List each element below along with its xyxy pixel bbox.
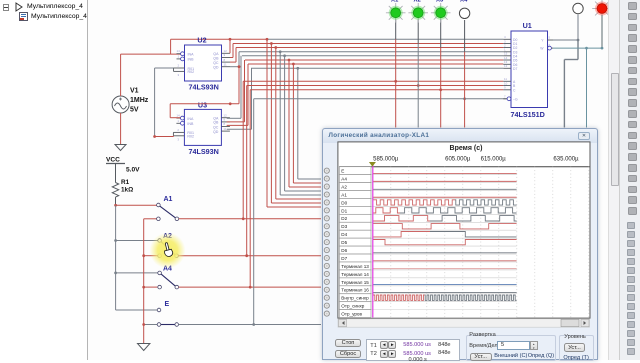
wire U2 QD to row D3 — [230, 50, 503, 66]
svg-text:Терминал 15: Терминал 15 — [341, 280, 369, 285]
wire red ground rail — [142, 219, 158, 343]
waveform terminal 15 — [373, 284, 517, 286]
wire U3 QD to row D7 — [227, 67, 504, 129]
VCC power symbol — [106, 157, 140, 183]
svg-text:D7: D7 — [341, 256, 347, 261]
svg-text:D0: D0 — [341, 200, 347, 205]
wire U2 reset net — [155, 68, 174, 137]
waveform A2 — [373, 188, 517, 190]
LED X1 (green, lit) — [386, 0, 406, 23]
waveform h-scrollbar — [338, 319, 590, 327]
wire A2 to U1 pin B — [247, 84, 504, 256]
svg-text:Терминал 14: Терминал 14 — [341, 272, 369, 277]
svg-text:D1: D1 — [341, 208, 347, 213]
svg-text:Время (с): Время (с) — [450, 145, 483, 152]
waveform E — [373, 172, 517, 174]
wire U1 Y to probe X6 — [553, 15, 579, 42]
wire U2 QD to U3 INA — [170, 65, 240, 117]
wire bundle drop 3 to analyzer — [276, 48, 321, 200]
svg-text:635.000µ: 635.000µ — [553, 157, 579, 163]
waveform D6 — [373, 252, 517, 254]
wire E output — [179, 323, 322, 326]
wire bundle drop 7 to analyzer — [293, 64, 321, 183]
svg-text:Отр_синхр: Отр_синхр — [341, 304, 364, 309]
wire U1 W to LED X5 — [553, 15, 603, 49]
LED X3 (green, lit) — [431, 0, 451, 23]
wire V1 top to clock net — [121, 39, 181, 96]
waveform D3 — [373, 224, 430, 229]
wire bundle drop 1 to analyzer — [267, 39, 321, 207]
wire A4 to U1 pin C — [250, 88, 503, 287]
counter U2 74LS93N — [174, 36, 231, 92]
grid dotted verticals — [373, 167, 589, 318]
svg-text:D4: D4 — [341, 232, 347, 237]
wire U3 QA to row D4 — [227, 54, 504, 118]
svg-text:Отр_уров: Отр_уров — [341, 312, 362, 317]
waveform terminal 16 — [373, 292, 517, 294]
svg-text:D3: D3 — [341, 224, 347, 229]
switch A2 — [158, 233, 179, 258]
analyzer panel frame — [338, 142, 590, 318]
wire Y to analyzer — [564, 40, 578, 128]
counter U3 74LS93N — [173, 101, 230, 156]
channel rows — [339, 167, 516, 318]
probe X4 (off) — [459, 0, 469, 19]
wire bundle drop 5 to analyzer — [285, 56, 321, 191]
wire U3 QB to row D5 — [227, 59, 504, 122]
wire A4 output — [179, 286, 321, 289]
switch A4 — [158, 266, 179, 289]
stop button — [335, 339, 361, 347]
wire A1 output — [179, 217, 321, 220]
wire U2 QC to row D2 — [230, 46, 503, 62]
wire LED X2 column — [417, 20, 419, 128]
wire LED X1 column — [395, 20, 397, 128]
waveform D2 — [373, 216, 430, 221]
resistor R1 — [112, 179, 133, 205]
mouse hand cursor — [162, 242, 173, 258]
waveform A4 — [373, 180, 517, 182]
project tree row 2 — [31, 13, 87, 20]
project tree row 1 — [27, 3, 83, 10]
reset button — [335, 350, 361, 358]
wire E to U1 enable — [254, 97, 508, 324]
svg-text:Терминал 16: Терминал 16 — [341, 288, 369, 293]
wire U3 QC to row D6 — [227, 63, 504, 126]
ac source V1 — [112, 88, 149, 114]
waveform D7 — [373, 260, 517, 262]
wire bundle drop 8 to analyzer — [298, 68, 321, 179]
waveform terminal 13 — [373, 268, 517, 270]
logic analyzer window — [322, 128, 598, 361]
probe X6 (off) — [573, 3, 583, 13]
wire U2 QB to row D1 — [230, 42, 503, 57]
wire V1 bottom to ground — [120, 113, 122, 144]
wire probe X4 column — [464, 20, 466, 128]
analyzer input terminals — [324, 168, 329, 316]
wire R1 to A1 top — [114, 204, 156, 207]
LED X2 (green, lit) — [408, 0, 428, 23]
wire bundle drop 2 to analyzer — [271, 44, 321, 204]
waveform D5 — [373, 240, 430, 245]
ground (V1) — [115, 145, 126, 151]
wire gray rail (switch tops) — [114, 205, 158, 310]
svg-text:Терминал 13: Терминал 13 — [341, 264, 369, 269]
wire W to analyzer — [585, 47, 588, 128]
waveform D1 — [373, 208, 400, 213]
svg-text:A1: A1 — [341, 192, 347, 197]
svg-text:E: E — [341, 169, 344, 174]
waveform D4 — [373, 232, 430, 237]
time cursor T1 — [372, 164, 374, 318]
wire U3 reset net — [153, 135, 173, 138]
ground (rail) — [138, 344, 150, 351]
svg-text:Внутр_синхр: Внутр_синхр — [341, 296, 369, 301]
waveform A1 — [373, 196, 517, 198]
svg-text:615.000µ: 615.000µ — [481, 157, 507, 163]
svg-text:D2: D2 — [341, 216, 347, 221]
LED X5 (red, lit) — [592, 0, 612, 18]
wire bundle drop 6 to analyzer — [289, 60, 321, 187]
svg-text:585.000µ: 585.000µ — [373, 157, 399, 163]
waveform internal clock — [373, 295, 425, 300]
sweep group — [466, 335, 556, 361]
switch E — [157, 301, 178, 326]
wire clock row to U1 D0 — [171, 38, 504, 41]
waveform D0 — [373, 200, 455, 205]
multiplexer U1 74LS151D — [503, 21, 553, 119]
wire bundle drop 4 to analyzer — [280, 52, 321, 195]
cursor highlight glow — [150, 233, 186, 269]
svg-text:605.000µ: 605.000µ — [445, 157, 471, 163]
switch A1 — [157, 196, 179, 221]
wire A2 output — [178, 254, 321, 257]
svg-text:D5: D5 — [341, 240, 347, 245]
wire A1 to U1 pin A — [243, 80, 503, 219]
wire U2 QA to row — [229, 39, 231, 53]
svg-text:D6: D6 — [341, 248, 347, 253]
wire LED X3 column — [440, 20, 442, 128]
svg-text:A2: A2 — [341, 184, 347, 189]
svg-text:A4: A4 — [341, 177, 347, 182]
